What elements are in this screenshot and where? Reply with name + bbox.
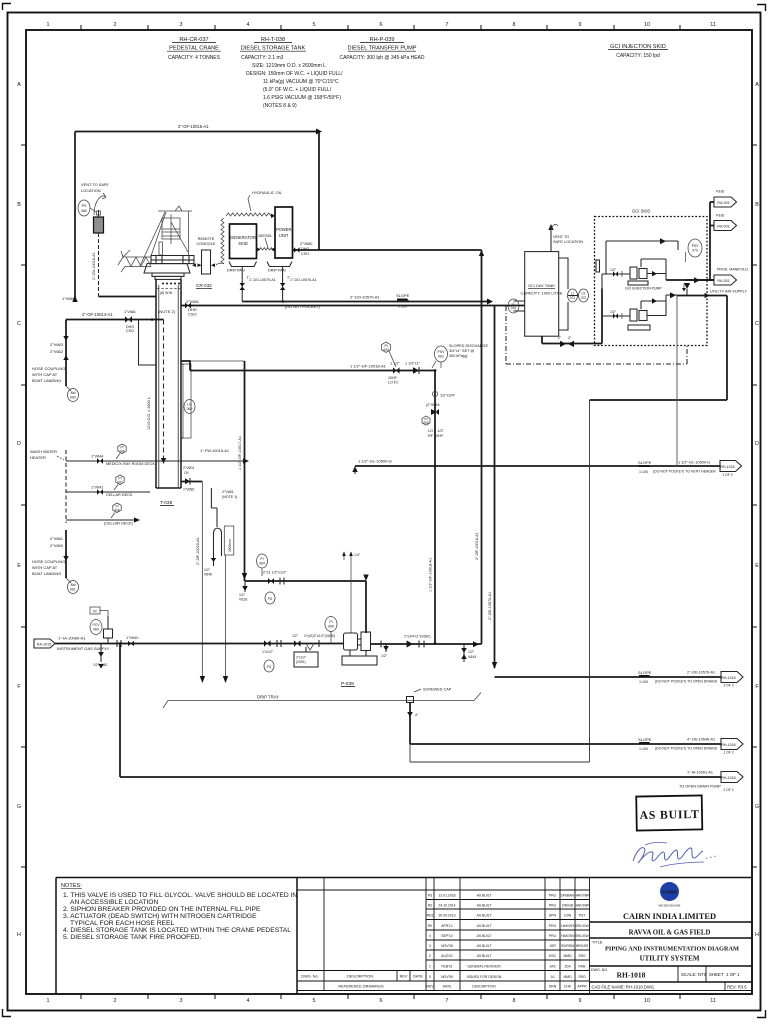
wire air drop x589.5	[410, 400, 590, 762]
svg-text:24.10.2014: 24.10.2014	[439, 904, 456, 908]
svg-text:2: 2	[114, 998, 117, 1004]
svg-text:10: 10	[644, 22, 650, 28]
svg-text:DRIP TRAY: DRIP TRAY	[257, 695, 279, 700]
svg-text:CAIRN INDIA LIMITED: CAIRN INDIA LIMITED	[623, 912, 716, 921]
revision table rows text	[427, 894, 591, 989]
svg-text:1.6 PSIG VACUUM @ 158°F/59°F): 1.6 PSIG VACUUM @ 158°F/59°F)	[263, 95, 341, 101]
svg-text:060: 060	[81, 209, 87, 213]
svg-text:1"-DO-10576-A1: 1"-DO-10576-A1	[290, 278, 317, 282]
svg-text:1/2": 1/2"	[239, 593, 246, 597]
svg-text:SRG: SRG	[578, 975, 586, 979]
row letters left	[17, 82, 21, 938]
title text	[592, 941, 739, 963]
equipment header RH-T-038 diesel storage tank	[241, 37, 306, 52]
svg-text:V644: V644	[468, 655, 476, 659]
svg-text:CAPACITY: 2.1 m3: CAPACITY: 2.1 m3	[241, 55, 284, 61]
corner mark bottom-right	[757, 1010, 766, 1018]
svg-text:NOTES:: NOTES:	[61, 883, 82, 889]
svg-text:065: 065	[423, 421, 429, 425]
row ticks right	[752, 145, 757, 867]
column ticks bottom	[81, 994, 680, 999]
svg-text:1: 1	[47, 22, 50, 28]
svg-text:B: B	[17, 202, 21, 208]
pedestal crane structure	[140, 206, 192, 266]
svg-text:2"-OF-10020-A1: 2"-OF-10020-A1	[196, 537, 200, 565]
svg-text:SS/RSM: SS/RSM	[561, 944, 574, 948]
wire gci vertical x677	[676, 296, 678, 467]
svg-text:P-039: P-039	[341, 681, 354, 687]
svg-text:CK: CK	[184, 471, 190, 475]
svg-text:5: 5	[313, 998, 316, 1004]
svg-text:CSO: CSO	[301, 252, 309, 256]
svg-text:SCREWED CAP: SCREWED CAP	[423, 688, 452, 692]
wire vent riser down right x319	[318, 132, 320, 251]
discharge drain 1/2"V644	[461, 644, 476, 662]
GCI pump A discharge	[666, 274, 713, 295]
svg-text:4: 4	[247, 22, 250, 28]
svg-text:2: 2	[114, 22, 117, 28]
svg-text:1. THIS VALVE IS USED TO FILL: 1. THIS VALVE IS USED TO FILL GLYCOL. VA…	[63, 892, 297, 899]
svg-text:G: G	[755, 804, 759, 810]
svg-text:C: C	[755, 321, 759, 327]
svg-text:1/2": 1/2"	[292, 634, 299, 638]
svg-text:CAD FILE NAME: RH-1018.DWG: CAD FILE NAME: RH-1018.DWG	[592, 985, 655, 990]
svg-text:DN/GB: DN/GB	[562, 904, 573, 908]
svg-text:6: 6	[380, 22, 383, 28]
svg-text:2"-OF-10015-A1: 2"-OF-10015-A1	[178, 124, 209, 129]
svg-text:2"x1 1/2"x1/2": 2"x1 1/2"x1/2"	[263, 571, 287, 575]
pedestal flange	[152, 273, 184, 279]
wire instrument gas supply y643.5	[55, 636, 343, 652]
svg-text:BOAT LANDING: BOAT LANDING	[32, 571, 61, 576]
svg-text:UNIT: UNIT	[279, 233, 289, 238]
drip pan drain power unit 1"-DO-10575-A1	[280, 267, 317, 302]
svg-text:10HF: 10HF	[388, 376, 398, 380]
svg-text:062: 062	[187, 407, 193, 411]
svg-text:1:100: 1:100	[639, 470, 648, 474]
svg-text:HAK/SN: HAK/SN	[561, 924, 574, 928]
wire GF drop x435	[429, 369, 456, 645]
crane remote console	[192, 236, 216, 274]
svg-text:PS: PS	[82, 204, 87, 208]
svg-text:064: 064	[259, 562, 265, 566]
svg-text:RH-1016: RH-1016	[721, 676, 735, 680]
svg-text:LI: LI	[571, 292, 574, 296]
svg-text:2"-OD-10570-A1: 2"-OD-10570-A1	[488, 592, 492, 620]
svg-text:SLOPE: SLOPE	[638, 670, 652, 675]
svg-text:A: A	[755, 82, 759, 88]
drip tray outline	[163, 693, 481, 709]
GCI pump B discharge to air line	[666, 292, 677, 298]
svg-text:P&ID: P&ID	[716, 214, 725, 218]
svg-text:SLOPE: SLOPE	[638, 460, 652, 465]
svg-text:RH-1016: RH-1016	[721, 743, 735, 747]
svg-text:0: 0	[429, 975, 431, 979]
svg-text:DWG. No.: DWG. No.	[301, 975, 318, 979]
valve on gas line 1"V644	[126, 636, 138, 646]
equipment header GCI injection skid	[610, 44, 666, 59]
svg-text:11: 11	[710, 22, 716, 28]
svg-text:1/2": 1/2"	[204, 568, 211, 572]
svg-text:DATE: DATE	[443, 985, 453, 989]
svg-text:LOCATION: LOCATION	[81, 188, 101, 193]
svg-text:RHB: RHB	[578, 965, 586, 969]
T-038 label	[160, 500, 174, 506]
svg-text:MMD: MMD	[563, 975, 572, 979]
svg-text:061: 061	[438, 355, 444, 359]
svg-text:LO FC: LO FC	[388, 381, 399, 385]
svg-text:CSO: CSO	[188, 312, 197, 317]
svg-text:450 kPa(g): 450 kPa(g)	[449, 354, 468, 358]
svg-text:AUG'01: AUG'01	[441, 954, 453, 958]
svg-text:1/4": 1/4"	[354, 553, 361, 557]
wire instrument air to open drain pump y777	[119, 642, 722, 788]
svg-text:DESCRIPTION: DESCRIPTION	[472, 985, 496, 989]
GCI pump B suction	[602, 289, 630, 320]
svg-text:E: E	[17, 563, 21, 569]
wire dashed vent 2"-OV-10016-A1 from arrestor down	[92, 233, 99, 297]
svg-text:DSC: DSC	[549, 954, 557, 958]
svg-text:SAFE LOCATION: SAFE LOCATION	[553, 240, 583, 244]
svg-text:(DO NOT POCKET) TO OPEN DRAINS: (DO NOT POCKET) TO OPEN DRAINS	[655, 680, 718, 684]
svg-text:1 1/2"-GF-10018-A1: 1 1/2"-GF-10018-A1	[350, 364, 387, 369]
day tank bottom outlet to skid	[542, 289, 602, 348]
svg-text:P&ID: P&ID	[716, 190, 725, 194]
svg-text:2"V681: 2"V681	[222, 490, 234, 494]
svg-text:2"-OD-10576-A1: 2"-OD-10576-A1	[687, 671, 715, 675]
svg-text:PRU: PRU	[549, 904, 557, 908]
svg-text:H: H	[17, 932, 21, 938]
wire glycol header 1 1/2"-GL-10500-G y466	[352, 459, 720, 475]
svg-text:BOAT LANDING: BOAT LANDING	[32, 378, 61, 383]
wire vent header top 2"-OF-10015-A1	[75, 124, 322, 135]
P-039 label	[341, 681, 355, 687]
tank bolts row	[160, 283, 180, 296]
svg-text:SPN: SPN	[549, 914, 557, 918]
flag RH-1016 open drains 1	[721, 739, 743, 755]
svg-text:1: 1	[429, 965, 431, 969]
svg-text:3: 3	[180, 998, 183, 1004]
svg-text:RH-1018: RH-1018	[617, 971, 646, 980]
notes block	[61, 883, 297, 941]
svg-text:2"V681: 2"V681	[186, 299, 200, 304]
svg-text:GENERATOR: GENERATOR	[230, 235, 256, 240]
svg-text:1 1/2"x1": 1 1/2"x1"	[405, 362, 421, 366]
wire tank side line to pump column x244.5	[190, 361, 245, 581]
crane boom lattice	[118, 250, 151, 272]
day tank level bridle right	[559, 258, 589, 330]
tank internal dashed line	[157, 288, 180, 290]
flag instrument gas RA-1015	[34, 639, 55, 648]
svg-text:068: 068	[114, 509, 120, 513]
suction strainer and valves before pump	[262, 634, 335, 667]
svg-text:POWER: POWER	[276, 227, 292, 232]
svg-text:DIESEL: DIESEL	[259, 233, 274, 238]
svg-text:1:100: 1:100	[639, 747, 648, 751]
hose coupling circle lower	[66, 578, 79, 594]
valve and hex on GF line	[382, 342, 401, 385]
wire hose coupling riser lower x66	[50, 530, 69, 578]
svg-text:RH-1016: RH-1016	[720, 465, 734, 469]
P and ID flag RA-001 top	[710, 190, 737, 281]
svg-text:(NOTE 2): (NOTE 2)	[158, 309, 176, 314]
svg-text:PIPING AND INSTRUMENTATION DIA: PIPING AND INSTRUMENTATION DIAGRAM	[605, 946, 739, 953]
svg-text:MMD: MMD	[563, 954, 572, 958]
svg-text:4: 4	[247, 998, 250, 1004]
svg-text:SEP'10: SEP'10	[441, 934, 452, 938]
svg-text:DRN: DRN	[549, 985, 557, 989]
GCI day tank	[521, 252, 563, 337]
svg-text:VENT TO SAFE: VENT TO SAFE	[81, 182, 109, 187]
P and ID flag RA-001 second	[710, 214, 737, 231]
svg-text:R0: R0	[428, 924, 432, 928]
svg-text:(NOTE 1): (NOTE 1)	[222, 495, 237, 499]
svg-text:CSN: CSN	[564, 914, 572, 918]
svg-text:(5.9" OF W.C. + LIQUID FULL/: (5.9" OF W.C. + LIQUID FULL/	[263, 87, 332, 93]
corner mark top-left	[3, 4, 12, 11]
equipment header RH-CR-037 pedestal crane	[168, 37, 221, 61]
day tank LL bubble	[508, 299, 525, 313]
svg-text:2"V661: 2"V661	[50, 536, 64, 541]
svg-text:4: 4	[429, 934, 431, 938]
reference drawings table text	[301, 975, 423, 989]
svg-text:NOV'05: NOV'05	[441, 944, 453, 948]
svg-text:R3: R3	[428, 894, 432, 898]
revision table grid	[426, 878, 590, 995]
wire tank nozzle jog to GF line	[181, 361, 190, 371]
svg-text:2"x(S)2"x1/2"(V690): 2"x(S)2"x1/2"(V690)	[304, 634, 335, 638]
svg-text:CELLAR DECK: CELLAR DECK	[106, 493, 133, 497]
svg-text:DESIGN: 150mm OF W.C. + LIQUID: DESIGN: 150mm OF W.C. + LIQUID FULL/	[246, 71, 343, 77]
svg-text:PG: PG	[267, 665, 272, 669]
wire pump discharge riser x481.5	[475, 250, 484, 644]
svg-text:1 OF 2: 1 OF 2	[722, 473, 732, 477]
svg-text:8: 8	[513, 22, 516, 28]
svg-text:1"V665: 1"V665	[62, 296, 76, 301]
svg-text:1"V681: 1"V681	[124, 310, 136, 314]
svg-text:AW: AW	[70, 583, 76, 587]
svg-text:WE SEE IMAGINE: WE SEE IMAGINE	[659, 904, 681, 908]
svg-text:GCI DAY TANK: GCI DAY TANK	[528, 283, 555, 288]
svg-text:REFERENCE DRAWINGS: REFERENCE DRAWINGS	[338, 985, 384, 989]
svg-text:CAPACITY: 150 lpd: CAPACITY: 150 lpd	[616, 53, 660, 59]
row letters right	[755, 82, 759, 938]
svg-text:RH-P-039: RH-P-039	[370, 37, 395, 43]
svg-text:SLOPE: SLOPE	[396, 293, 410, 298]
CAIRN logo	[659, 882, 681, 908]
wash water heater label	[30, 449, 64, 460]
svg-text:PST: PST	[579, 914, 586, 918]
svg-text:11 kPa(g) VACUUM @ 70°C/15°C: 11 kPa(g) VACUUM @ 70°C/15°C	[263, 79, 339, 85]
svg-text:AS BUILT: AS BUILT	[477, 914, 492, 918]
svg-text:R2: R2	[428, 904, 432, 908]
wire riser x494.5 from y305.5 to slope line	[488, 306, 497, 670]
svg-text:1/2": 1/2"	[610, 310, 617, 314]
svg-text:E: E	[755, 563, 759, 569]
svg-text:H: H	[755, 932, 759, 938]
wire medic deck branch y461	[66, 444, 249, 466]
cad file row	[592, 982, 748, 991]
svg-text:HAK/SN: HAK/SN	[561, 934, 574, 938]
svg-text:071: 071	[570, 296, 576, 300]
svg-text:1219 O.D. x 2600 L: 1219 O.D. x 2600 L	[147, 397, 151, 430]
AS BUILT stamp	[636, 795, 702, 830]
svg-text:DESCRIPTION: DESCRIPTION	[347, 975, 373, 979]
svg-text:1 1/2"-GF-10018-A1: 1 1/2"-GF-10018-A1	[429, 558, 433, 592]
svg-text:2. SIPHON BREAKER PROVIDED ON: 2. SIPHON BREAKER PROVIDED ON THE INTERN…	[63, 906, 261, 913]
svg-text:1/2": 1/2"	[468, 650, 475, 654]
svg-text:1"V682: 1"V682	[183, 488, 194, 492]
bottom band outline	[56, 878, 752, 995]
svg-text:2600mm: 2600mm	[228, 539, 232, 552]
reference drawings table grid	[297, 878, 752, 991]
svg-text:DHG: DHG	[301, 247, 309, 251]
wire lower deck branch y520	[66, 503, 140, 526]
svg-text:2"-OV-10016-A1: 2"-OV-10016-A1	[92, 252, 96, 280]
svg-text:(DO NOT POCKET) TO VENT HEADER: (DO NOT POCKET) TO VENT HEADER	[653, 470, 716, 474]
svg-text:XC: XC	[93, 610, 98, 614]
column numbers bottom	[47, 998, 716, 1004]
svg-text:D: D	[755, 441, 759, 447]
transfer pump P-039	[342, 632, 377, 665]
svg-text:066: 066	[119, 450, 125, 454]
wire open drain slope line 1 y677	[495, 670, 722, 684]
svg-text:RA-001: RA-001	[717, 225, 729, 229]
svg-text:(CELLAR DECK): (CELLAR DECK)	[104, 522, 134, 526]
prod manifold flag RA-001	[710, 268, 748, 286]
loop seal	[214, 526, 234, 556]
svg-text:SLOPE: SLOPE	[638, 737, 652, 742]
svg-text:1"x1/2": 1"x1/2"	[262, 650, 274, 654]
svg-text:REV: REV	[400, 975, 408, 979]
svg-text:SKID: SKID	[238, 241, 248, 246]
svg-text:069: 069	[328, 625, 334, 629]
svg-text:PI: PI	[260, 557, 263, 561]
wire pump suction feed y581	[242, 571, 369, 634]
GCI pump A recirculation loop	[606, 238, 678, 276]
svg-text:PRU: PRU	[549, 924, 557, 928]
svg-text:VENT TO: VENT TO	[553, 235, 569, 239]
wire branch fill to tank x138.5	[139, 320, 157, 366]
drip pan under generator skid	[227, 262, 257, 273]
GCI pump A	[625, 267, 662, 291]
tank bottom drain line x202.4	[196, 482, 205, 684]
svg-text:061: 061	[70, 588, 76, 592]
svg-text:RA-001: RA-001	[717, 201, 729, 205]
wire hose coupling riser upper x66	[65, 320, 67, 387]
svg-text:AN ACCESSIBLE LOCATION: AN ACCESSIBLE LOCATION	[70, 899, 158, 906]
check valve and label 1 1/2"x1"	[405, 362, 421, 375]
svg-text:AS BUILT: AS BUILT	[477, 904, 492, 908]
svg-text:HOSE COUPLING: HOSE COUPLING	[32, 366, 65, 371]
svg-text:D: D	[17, 441, 21, 447]
wire tank outlet to GCI day tank y305.5	[181, 299, 525, 317]
svg-text:10: 10	[644, 998, 650, 1004]
svg-text:RAVVA OIL & GAS FIELD: RAVVA OIL & GAS FIELD	[629, 930, 711, 937]
dwg number row	[591, 966, 740, 982]
svg-text:(V691): (V691)	[296, 660, 306, 664]
svg-text:060: 060	[70, 396, 76, 400]
svg-text:WASH WATER: WASH WATER	[30, 449, 57, 454]
svg-text:RH-T-038: RH-T-038	[261, 37, 285, 43]
svg-text:2: 2	[429, 954, 431, 958]
svg-text:HAK/SNP: HAK/SNP	[575, 894, 591, 898]
svg-text:SLOPED DISCHARGE: SLOPED DISCHARGE	[449, 344, 489, 348]
svg-text:TITLE:: TITLE:	[592, 941, 603, 945]
PI bubble before pump	[325, 617, 337, 644]
svg-text:2"V680: 2"V680	[300, 242, 312, 246]
CR-032 label	[196, 283, 212, 288]
svg-text:PI: PI	[329, 620, 332, 624]
svg-text:1: 1	[47, 998, 50, 1004]
svg-text:1"-FW-10019-A1: 1"-FW-10019-A1	[200, 448, 229, 453]
svg-text:NOV'09: NOV'09	[441, 975, 453, 979]
svg-text:WITH CAP AT: WITH CAP AT	[32, 372, 58, 377]
svg-text:1"-IA-10061-A1: 1"-IA-10061-A1	[687, 771, 713, 775]
node labels 2"V680 DHG CSO power unit outlet	[300, 242, 312, 256]
svg-text:GCI SKID: GCI SKID	[632, 209, 650, 214]
svg-text:DATE: DATE	[413, 975, 423, 979]
svg-text:AS BUILT: AS BUILT	[639, 807, 699, 822]
svg-text:RA-001: RA-001	[717, 279, 729, 283]
svg-text:CSO: CSO	[126, 329, 134, 333]
svg-text:LG: LG	[187, 403, 192, 407]
svg-text:RN1: RN1	[427, 914, 434, 918]
svg-text:1"V641: 1"V641	[91, 486, 103, 490]
svg-text:JGR: JGR	[549, 944, 556, 948]
generator skid box	[230, 224, 257, 259]
svg-text:SRG: SRG	[578, 954, 586, 958]
svg-text:APPR: APPR	[577, 985, 587, 989]
screwed cap funnel	[407, 688, 452, 745]
svg-text:V646: V646	[204, 573, 212, 577]
instrument bubble PS 060	[78, 200, 96, 216]
svg-text:1/2": 1/2"	[610, 268, 617, 272]
svg-text:1/2": 1/2"	[381, 654, 388, 658]
svg-text:30.08.2013: 30.08.2013	[439, 914, 456, 918]
pump vent risers 1/4"	[342, 552, 361, 634]
svg-text:DIESEL STORAGE TANK: DIESEL STORAGE TANK	[241, 46, 306, 52]
svg-text:RH-CR-037: RH-CR-037	[179, 37, 208, 43]
svg-text:PCV: PCV	[93, 623, 101, 627]
flame arrestor on vent	[94, 210, 104, 233]
svg-text:GCI INJECTION PUMP: GCI INJECTION PUMP	[625, 287, 662, 291]
GCI pump A suction	[602, 268, 630, 289]
wire cellar deck branch y492	[66, 475, 150, 497]
svg-text:3: 3	[429, 944, 431, 948]
air line angle valve	[682, 284, 691, 292]
wire vent into tank top y297	[99, 296, 157, 298]
svg-text:T-038: T-038	[160, 500, 173, 506]
skid inlet strainer	[596, 260, 600, 272]
svg-text:3/4"x1" SET @: 3/4"x1" SET @	[449, 349, 474, 353]
gas regulator station	[90, 607, 121, 647]
svg-text:GCI INJECTION SKID: GCI INJECTION SKID	[610, 44, 666, 50]
flag RH-1016 open drain pump	[721, 772, 743, 793]
labels 2"V663 2"V662	[50, 336, 69, 360]
svg-text:7: 7	[446, 998, 449, 1004]
svg-text:(2"V694: (2"V694	[426, 403, 440, 407]
svg-text:FEB'01: FEB'01	[441, 965, 452, 969]
svg-text:2"x1/2": 2"x1/2"	[296, 656, 306, 660]
svg-text:2 OF 2: 2 OF 2	[723, 788, 733, 792]
svg-text:11: 11	[710, 998, 716, 1004]
signature blue ink	[633, 842, 716, 867]
svg-text:1 OF 2: 1 OF 2	[723, 751, 733, 755]
svg-text:SRL/GW: SRL/GW	[575, 934, 589, 938]
flag RH-1016 vent header	[720, 461, 742, 478]
svg-text:G: G	[17, 804, 21, 810]
